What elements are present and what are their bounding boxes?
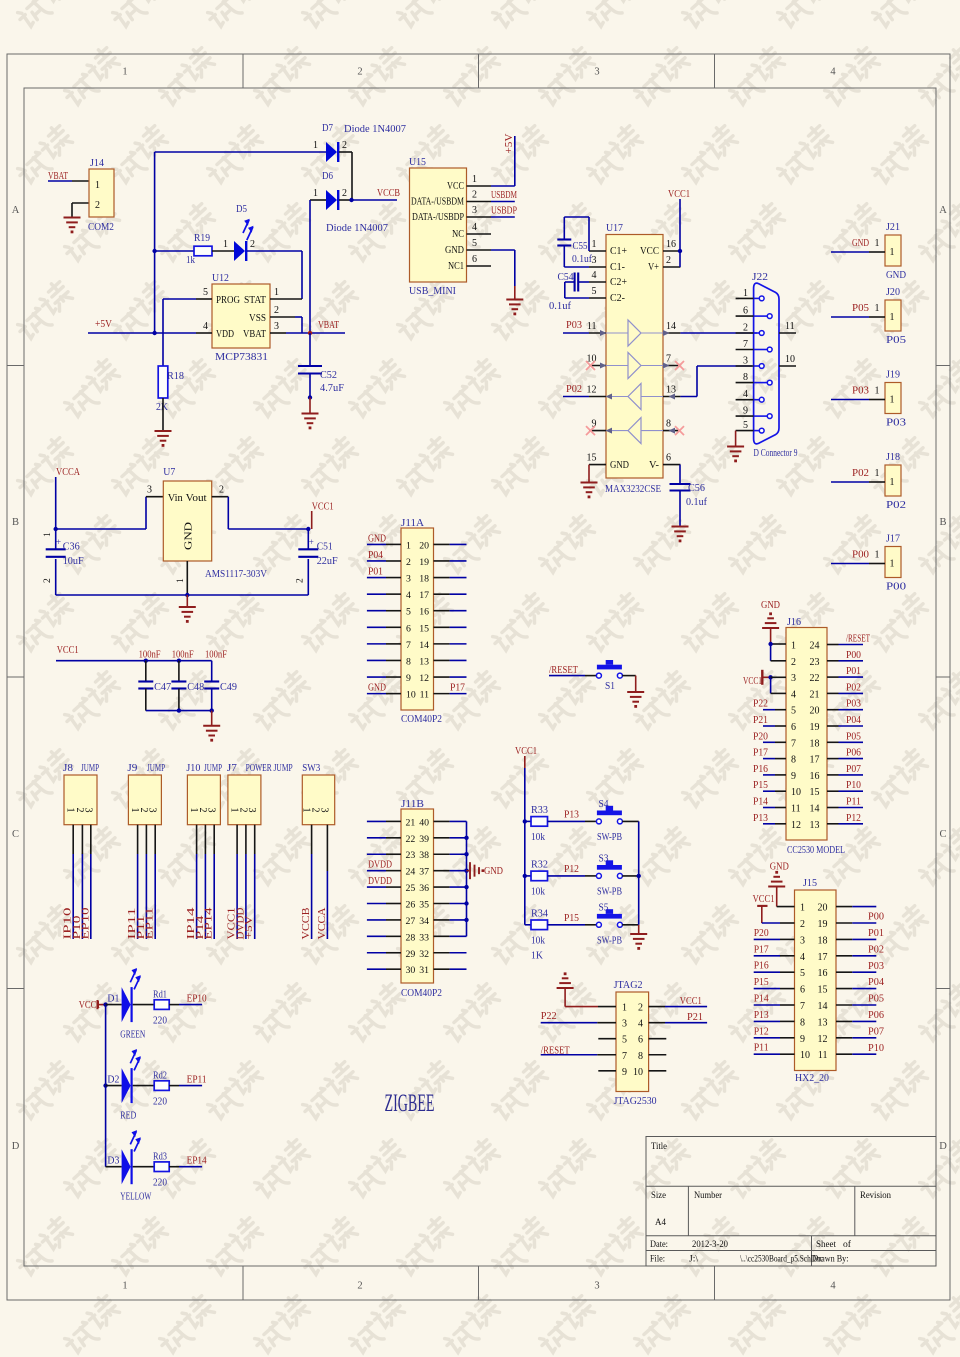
svg-text:R33: R33 bbox=[531, 805, 548, 816]
svg-text:1: 1 bbox=[743, 288, 748, 299]
svg-text:19: 19 bbox=[419, 557, 429, 568]
svg-text:P17: P17 bbox=[450, 683, 465, 694]
svg-text:U17: U17 bbox=[606, 223, 623, 234]
svg-text:23: 23 bbox=[810, 657, 820, 668]
svg-text:2: 2 bbox=[800, 919, 805, 930]
svg-text:J16: J16 bbox=[787, 617, 801, 628]
svg-text:P04: P04 bbox=[846, 715, 862, 726]
svg-text:P00: P00 bbox=[852, 550, 869, 561]
svg-text:4: 4 bbox=[743, 389, 748, 400]
svg-text:U15: U15 bbox=[409, 157, 426, 168]
svg-text:3: 3 bbox=[791, 673, 796, 684]
svg-text:4: 4 bbox=[203, 321, 208, 332]
svg-text:J11A: J11A bbox=[401, 518, 424, 529]
svg-text:2: 2 bbox=[406, 557, 411, 568]
svg-text:14: 14 bbox=[666, 321, 676, 332]
svg-text:A4: A4 bbox=[655, 1218, 666, 1228]
svg-text:20: 20 bbox=[810, 706, 820, 717]
svg-text:5: 5 bbox=[472, 238, 477, 249]
svg-text:HX2_20: HX2_20 bbox=[795, 1073, 829, 1084]
svg-text:Vout: Vout bbox=[186, 493, 207, 504]
svg-text:11: 11 bbox=[420, 690, 430, 701]
svg-text:/RESET: /RESET bbox=[846, 634, 870, 645]
svg-text:Vin: Vin bbox=[168, 493, 184, 504]
svg-text:1K: 1K bbox=[531, 950, 543, 961]
svg-text:5: 5 bbox=[406, 607, 411, 618]
svg-text:C51: C51 bbox=[317, 542, 333, 553]
svg-text:P03: P03 bbox=[852, 386, 869, 397]
svg-text:P10: P10 bbox=[846, 780, 861, 791]
svg-text:16: 16 bbox=[810, 771, 820, 782]
svg-text:24: 24 bbox=[810, 641, 820, 652]
svg-text:2: 2 bbox=[274, 305, 279, 316]
svg-text:2K: 2K bbox=[156, 402, 168, 413]
svg-text:P00: P00 bbox=[886, 582, 906, 593]
svg-text:2: 2 bbox=[296, 578, 306, 583]
svg-text:C49: C49 bbox=[220, 682, 237, 693]
svg-text:34: 34 bbox=[419, 916, 429, 927]
svg-text:1: 1 bbox=[875, 386, 880, 397]
svg-text:18: 18 bbox=[810, 738, 820, 749]
svg-text:20: 20 bbox=[419, 540, 429, 551]
svg-text:4: 4 bbox=[830, 1281, 836, 1292]
svg-text:+5V: +5V bbox=[504, 133, 515, 153]
svg-text:JUMP: JUMP bbox=[147, 763, 165, 774]
svg-text:10k: 10k bbox=[531, 832, 546, 843]
svg-text:C48: C48 bbox=[187, 682, 204, 693]
svg-text:2: 2 bbox=[743, 323, 748, 334]
svg-text:1: 1 bbox=[43, 532, 53, 537]
svg-text:5: 5 bbox=[622, 1035, 627, 1046]
svg-text:3: 3 bbox=[743, 356, 748, 367]
svg-text:P05: P05 bbox=[868, 994, 884, 1005]
svg-text:14: 14 bbox=[818, 1001, 828, 1012]
svg-text:B: B bbox=[12, 517, 19, 528]
svg-text:1: 1 bbox=[890, 312, 895, 323]
svg-text:3: 3 bbox=[274, 321, 279, 332]
svg-text:U12: U12 bbox=[212, 273, 229, 284]
svg-text:P02: P02 bbox=[886, 500, 906, 511]
svg-text:GREEN: GREEN bbox=[120, 1030, 145, 1041]
svg-text:SW3: SW3 bbox=[302, 763, 320, 774]
svg-text:2: 2 bbox=[472, 190, 477, 201]
svg-text:3: 3 bbox=[82, 808, 93, 813]
svg-text:D3: D3 bbox=[107, 1156, 119, 1167]
svg-text:V+: V+ bbox=[648, 262, 659, 273]
svg-text:/RESET: /RESET bbox=[549, 665, 578, 676]
svg-text:AMS1117-303V: AMS1117-303V bbox=[205, 569, 267, 580]
svg-text:2: 2 bbox=[666, 255, 671, 266]
svg-text:6: 6 bbox=[666, 453, 671, 464]
svg-text:7: 7 bbox=[800, 1001, 805, 1012]
svg-text:C: C bbox=[12, 829, 19, 840]
svg-text:GND: GND bbox=[770, 862, 789, 873]
svg-text:POWER JUMP: POWER JUMP bbox=[246, 763, 293, 774]
svg-text:EP10: EP10 bbox=[80, 908, 91, 940]
svg-text:37: 37 bbox=[419, 867, 429, 878]
svg-text:P01: P01 bbox=[868, 928, 884, 939]
svg-text:J8: J8 bbox=[63, 763, 73, 774]
svg-text:16: 16 bbox=[818, 968, 828, 979]
svg-text:11: 11 bbox=[587, 321, 597, 332]
svg-text:1: 1 bbox=[122, 1281, 127, 1292]
svg-text:P01: P01 bbox=[846, 666, 861, 677]
svg-text:P03: P03 bbox=[566, 320, 582, 331]
svg-text:VSS: VSS bbox=[249, 313, 266, 324]
svg-text:3: 3 bbox=[147, 485, 152, 496]
svg-text:+: + bbox=[309, 537, 314, 547]
svg-text:4.7uF: 4.7uF bbox=[320, 383, 344, 394]
svg-text:C55: C55 bbox=[573, 241, 588, 252]
svg-text:J7: J7 bbox=[227, 763, 237, 774]
svg-text:GND: GND bbox=[368, 683, 386, 694]
svg-text:P02: P02 bbox=[846, 682, 861, 693]
svg-text:C47: C47 bbox=[154, 682, 171, 693]
svg-text:+5V: +5V bbox=[244, 915, 255, 940]
svg-text:J19: J19 bbox=[886, 370, 900, 381]
svg-text:COM40P2: COM40P2 bbox=[401, 714, 442, 725]
svg-text:C36: C36 bbox=[63, 542, 80, 553]
svg-text:P21: P21 bbox=[687, 1012, 703, 1023]
svg-text:P13: P13 bbox=[753, 813, 768, 824]
svg-text:Diode 1N4007: Diode 1N4007 bbox=[344, 124, 406, 135]
svg-text:C1+: C1+ bbox=[610, 246, 627, 257]
svg-text:27: 27 bbox=[406, 916, 416, 927]
svg-text:GND: GND bbox=[368, 533, 386, 544]
svg-text:1: 1 bbox=[875, 303, 880, 314]
svg-text:24: 24 bbox=[406, 867, 416, 878]
svg-text:7: 7 bbox=[743, 339, 748, 350]
svg-text:EP14: EP14 bbox=[204, 908, 215, 940]
svg-text:P03: P03 bbox=[846, 699, 861, 710]
svg-text:12: 12 bbox=[818, 1034, 828, 1045]
svg-text:25: 25 bbox=[406, 883, 416, 894]
svg-text:3: 3 bbox=[472, 205, 477, 216]
svg-text:100nF: 100nF bbox=[205, 650, 227, 661]
svg-text:P04: P04 bbox=[368, 550, 384, 561]
svg-text:J20: J20 bbox=[886, 287, 900, 298]
svg-text:8: 8 bbox=[791, 755, 796, 766]
svg-text:2: 2 bbox=[219, 485, 224, 496]
svg-text:A: A bbox=[12, 205, 20, 216]
svg-text:19: 19 bbox=[810, 722, 820, 733]
svg-text:VCC: VCC bbox=[447, 181, 464, 192]
svg-text:NC: NC bbox=[452, 229, 464, 240]
svg-text:P03: P03 bbox=[868, 961, 884, 972]
svg-text:P07: P07 bbox=[868, 1026, 884, 1037]
svg-text:D: D bbox=[12, 1141, 20, 1152]
svg-text:6: 6 bbox=[791, 722, 796, 733]
svg-text:P14: P14 bbox=[753, 797, 769, 808]
svg-text:6: 6 bbox=[638, 1035, 643, 1046]
svg-text:100nF: 100nF bbox=[172, 650, 194, 661]
svg-text:R18: R18 bbox=[167, 371, 184, 382]
svg-text:VBAT: VBAT bbox=[243, 329, 266, 340]
svg-text:GND: GND bbox=[852, 238, 869, 249]
svg-text:P17: P17 bbox=[754, 944, 769, 955]
svg-text:18: 18 bbox=[419, 574, 429, 585]
svg-text:0.1uf: 0.1uf bbox=[549, 301, 572, 312]
svg-text:P02: P02 bbox=[852, 468, 869, 479]
svg-text:11: 11 bbox=[791, 804, 801, 815]
svg-text:C54: C54 bbox=[558, 272, 575, 283]
svg-text:DATA-/USBDM: DATA-/USBDM bbox=[411, 197, 464, 208]
svg-text:13: 13 bbox=[810, 820, 820, 831]
svg-text:DVDD: DVDD bbox=[368, 876, 392, 887]
svg-text:5: 5 bbox=[743, 420, 748, 431]
svg-text:6: 6 bbox=[406, 623, 411, 634]
svg-text:39: 39 bbox=[419, 834, 429, 845]
svg-text:12: 12 bbox=[791, 820, 801, 831]
svg-text:10k: 10k bbox=[531, 886, 546, 897]
svg-text:NC1: NC1 bbox=[448, 261, 464, 272]
svg-text:D2: D2 bbox=[107, 1075, 119, 1086]
svg-text:6: 6 bbox=[743, 306, 748, 317]
svg-text:220: 220 bbox=[153, 1097, 167, 1108]
svg-text:2: 2 bbox=[342, 140, 347, 151]
svg-text:1: 1 bbox=[95, 180, 100, 191]
svg-text:8: 8 bbox=[638, 1051, 643, 1062]
svg-text:S4: S4 bbox=[599, 799, 610, 810]
svg-text:2: 2 bbox=[791, 657, 796, 668]
svg-text:5: 5 bbox=[592, 286, 597, 297]
svg-text:SW-PB: SW-PB bbox=[597, 886, 622, 897]
svg-text:JUMP: JUMP bbox=[81, 763, 99, 774]
svg-text:P13: P13 bbox=[564, 809, 579, 820]
svg-text:STAT: STAT bbox=[244, 295, 267, 306]
svg-text:GND: GND bbox=[886, 270, 906, 281]
svg-text:6: 6 bbox=[800, 985, 805, 996]
svg-text:1: 1 bbox=[274, 287, 279, 298]
svg-text:VCC1: VCC1 bbox=[312, 502, 334, 513]
svg-text:9: 9 bbox=[406, 673, 411, 684]
svg-text:S3: S3 bbox=[599, 853, 609, 864]
svg-text:10k: 10k bbox=[531, 935, 546, 946]
svg-text:J11B: J11B bbox=[401, 799, 424, 810]
svg-text:EP10: EP10 bbox=[187, 994, 207, 1005]
svg-text:220: 220 bbox=[153, 1178, 167, 1189]
svg-text:10: 10 bbox=[406, 690, 416, 701]
svg-text:P15: P15 bbox=[753, 780, 768, 791]
svg-text:VCCA: VCCA bbox=[317, 907, 328, 940]
svg-text:1: 1 bbox=[890, 395, 895, 406]
svg-text:EP11: EP11 bbox=[187, 1075, 207, 1086]
svg-text:30: 30 bbox=[406, 965, 416, 976]
svg-text:VCC1: VCC1 bbox=[753, 894, 775, 905]
svg-text:+5V: +5V bbox=[95, 319, 112, 330]
svg-text:4: 4 bbox=[800, 952, 805, 963]
svg-text:28: 28 bbox=[406, 932, 416, 943]
svg-text:P10: P10 bbox=[868, 1043, 884, 1054]
svg-text:A: A bbox=[939, 205, 947, 216]
svg-text:J9: J9 bbox=[127, 763, 137, 774]
svg-text:P03: P03 bbox=[886, 418, 906, 429]
svg-text:22: 22 bbox=[406, 834, 416, 845]
svg-text:10: 10 bbox=[633, 1067, 643, 1078]
svg-text:31: 31 bbox=[419, 965, 429, 976]
svg-text:SW-PB: SW-PB bbox=[597, 935, 622, 946]
svg-text:3: 3 bbox=[147, 808, 158, 813]
svg-text:1: 1 bbox=[592, 239, 597, 250]
svg-text:1: 1 bbox=[800, 903, 805, 914]
svg-text:2: 2 bbox=[250, 239, 255, 250]
svg-text:6: 6 bbox=[472, 254, 477, 265]
svg-text:VCC1: VCC1 bbox=[57, 645, 79, 656]
svg-text:VCCB: VCCB bbox=[301, 907, 312, 939]
svg-text:Rd1: Rd1 bbox=[153, 990, 167, 1001]
svg-text:P22: P22 bbox=[541, 1011, 557, 1022]
svg-text:VCC1: VCC1 bbox=[680, 996, 702, 1007]
svg-text:GND: GND bbox=[610, 460, 629, 471]
svg-text:P21: P21 bbox=[753, 715, 768, 726]
svg-text:JTAG2530: JTAG2530 bbox=[614, 1096, 657, 1107]
svg-text:C56: C56 bbox=[688, 483, 705, 494]
svg-text:B: B bbox=[939, 517, 946, 528]
svg-text:EP14: EP14 bbox=[187, 1156, 208, 1167]
svg-text:1: 1 bbox=[622, 1003, 627, 1014]
svg-text:EP11: EP11 bbox=[145, 908, 156, 940]
svg-text:VCC1: VCC1 bbox=[668, 189, 690, 200]
svg-text:3: 3 bbox=[406, 574, 411, 585]
svg-text:VCCB: VCCB bbox=[377, 188, 400, 199]
svg-text:7: 7 bbox=[791, 738, 796, 749]
svg-text:P20: P20 bbox=[754, 928, 769, 939]
svg-text:C: C bbox=[939, 829, 946, 840]
svg-text:VDD: VDD bbox=[216, 329, 234, 340]
svg-text:+: + bbox=[56, 537, 61, 547]
svg-text:Diode 1N4007: Diode 1N4007 bbox=[326, 223, 388, 234]
svg-text:P11: P11 bbox=[754, 1043, 769, 1054]
svg-text:3: 3 bbox=[319, 808, 330, 813]
svg-text:15: 15 bbox=[587, 453, 597, 464]
svg-text:1: 1 bbox=[875, 238, 880, 249]
svg-text:J14: J14 bbox=[90, 158, 105, 169]
svg-text:VBAT: VBAT bbox=[318, 320, 339, 331]
svg-text:P16: P16 bbox=[754, 961, 769, 972]
svg-text:P16: P16 bbox=[753, 764, 768, 775]
svg-text:29: 29 bbox=[406, 949, 416, 960]
svg-text:2: 2 bbox=[357, 1281, 362, 1292]
svg-text:2012-3-20: 2012-3-20 bbox=[692, 1240, 728, 1250]
svg-text:S1: S1 bbox=[605, 681, 615, 692]
svg-text:Rd3: Rd3 bbox=[153, 1152, 167, 1163]
svg-text:R32: R32 bbox=[531, 859, 548, 870]
svg-text:15: 15 bbox=[810, 787, 820, 798]
svg-text:1: 1 bbox=[890, 247, 895, 258]
svg-text:C2+: C2+ bbox=[610, 277, 627, 288]
svg-text:P02: P02 bbox=[566, 384, 582, 395]
svg-text:11: 11 bbox=[785, 321, 795, 332]
svg-text:Rd2: Rd2 bbox=[153, 1071, 167, 1082]
svg-text:3: 3 bbox=[594, 1281, 599, 1292]
svg-text:CC2530 MODEL: CC2530 MODEL bbox=[787, 845, 845, 856]
svg-text:P22: P22 bbox=[753, 699, 768, 710]
svg-text:26: 26 bbox=[406, 900, 416, 911]
svg-text:1: 1 bbox=[313, 188, 318, 199]
svg-text:S5: S5 bbox=[599, 902, 609, 913]
svg-text:20: 20 bbox=[818, 903, 828, 914]
svg-text:ZIGBEE: ZIGBEE bbox=[385, 1090, 435, 1117]
svg-text:10uF: 10uF bbox=[63, 556, 84, 567]
svg-text:JTAG2: JTAG2 bbox=[614, 980, 643, 991]
svg-text:9: 9 bbox=[743, 406, 748, 417]
svg-text:P00: P00 bbox=[868, 912, 884, 923]
svg-text:1k: 1k bbox=[186, 255, 196, 266]
svg-text:P14: P14 bbox=[754, 994, 770, 1005]
svg-text:33: 33 bbox=[419, 932, 429, 943]
svg-text:8: 8 bbox=[666, 419, 671, 430]
svg-text:38: 38 bbox=[419, 850, 429, 861]
svg-text:7: 7 bbox=[406, 640, 411, 651]
svg-text:2: 2 bbox=[95, 200, 100, 211]
svg-text:13: 13 bbox=[818, 1017, 828, 1028]
svg-text:VCCA: VCCA bbox=[56, 467, 80, 478]
svg-text:U7: U7 bbox=[163, 467, 175, 478]
svg-text:13: 13 bbox=[419, 656, 429, 667]
svg-text:P04: P04 bbox=[868, 977, 885, 988]
svg-text:Drawn By:: Drawn By: bbox=[813, 1255, 849, 1265]
svg-text:V-: V- bbox=[649, 460, 659, 471]
svg-text:40: 40 bbox=[419, 817, 429, 828]
svg-text:D Connector 9: D Connector 9 bbox=[754, 448, 798, 459]
svg-text:C1-: C1- bbox=[610, 262, 625, 273]
svg-text:17: 17 bbox=[419, 590, 429, 601]
svg-text:DATA-/USBDP: DATA-/USBDP bbox=[412, 212, 464, 223]
svg-text:4: 4 bbox=[830, 67, 836, 78]
svg-text:P11: P11 bbox=[846, 797, 861, 808]
svg-text:VCC1: VCC1 bbox=[743, 676, 762, 687]
svg-text:5: 5 bbox=[800, 968, 805, 979]
svg-text:P20: P20 bbox=[753, 731, 768, 742]
svg-text:P05: P05 bbox=[886, 335, 906, 346]
svg-text:22uF: 22uF bbox=[317, 556, 338, 567]
svg-text:10: 10 bbox=[791, 787, 801, 798]
svg-text:16: 16 bbox=[666, 239, 676, 250]
svg-text:21: 21 bbox=[810, 689, 820, 700]
svg-text:P05: P05 bbox=[846, 731, 861, 742]
svg-text:8: 8 bbox=[406, 656, 411, 667]
svg-text:Revision: Revision bbox=[860, 1191, 891, 1201]
svg-text:P01: P01 bbox=[368, 567, 383, 578]
svg-text:18: 18 bbox=[818, 935, 828, 946]
svg-text:4: 4 bbox=[592, 270, 597, 281]
svg-text:GND: GND bbox=[184, 521, 195, 550]
svg-text:USB_MINI: USB_MINI bbox=[409, 286, 456, 297]
svg-text:PROG: PROG bbox=[216, 295, 240, 306]
svg-text:J21: J21 bbox=[886, 222, 900, 233]
svg-text:36: 36 bbox=[419, 883, 429, 894]
svg-text:14: 14 bbox=[419, 640, 429, 651]
svg-text:MCP73831: MCP73831 bbox=[215, 352, 268, 363]
svg-text:C52: C52 bbox=[320, 370, 337, 381]
svg-text:1: 1 bbox=[875, 550, 880, 561]
svg-text:3: 3 bbox=[592, 255, 597, 266]
svg-text:R34: R34 bbox=[531, 908, 549, 919]
svg-text:1: 1 bbox=[875, 468, 880, 479]
svg-text:P15: P15 bbox=[564, 913, 579, 924]
svg-text:220: 220 bbox=[153, 1016, 167, 1027]
svg-text:USBDM: USBDM bbox=[491, 190, 517, 201]
svg-text:Title: Title bbox=[651, 1142, 667, 1152]
svg-text:USBDP: USBDP bbox=[491, 206, 517, 217]
svg-text:DVDD: DVDD bbox=[368, 860, 392, 871]
svg-text:P13: P13 bbox=[754, 1010, 769, 1021]
svg-text:3: 3 bbox=[206, 808, 217, 813]
svg-text:1: 1 bbox=[406, 540, 411, 551]
svg-text:D1: D1 bbox=[107, 994, 119, 1005]
svg-text:9: 9 bbox=[800, 1034, 805, 1045]
svg-text:2: 2 bbox=[43, 578, 53, 583]
